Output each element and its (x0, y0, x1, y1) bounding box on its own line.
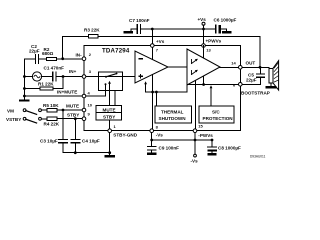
wire: +Vs top rail (131, 28, 227, 30)
node: OUT junction (259, 66, 262, 69)
svg-text:IN-: IN- (76, 52, 83, 57)
pin 8 circle (150, 129, 154, 133)
svg-text:THERMAL: THERMAL (161, 110, 184, 115)
svg-text:C6 1000µF: C6 1000µF (214, 18, 237, 23)
node: C3 tap (62, 109, 65, 112)
pin 1 circle (108, 129, 112, 133)
ground (C7 left) (125, 31, 132, 33)
svg-text:8: 8 (156, 125, 159, 130)
wire: stby link to STBY box (114, 90, 116, 112)
source VIN circle (32, 72, 41, 81)
switch box (mute/stby input switches) (99, 72, 123, 91)
svg-text:14: 14 (231, 60, 236, 65)
resistor R1 22K (40, 87, 53, 90)
svg-text:22µF: 22µF (29, 49, 40, 54)
wire: VM to R5 (41, 109, 47, 111)
node: C4 tap (74, 117, 77, 120)
pin 10 circle (82, 108, 86, 112)
svg-text:STBY: STBY (67, 112, 79, 117)
node: C4 bottom (74, 151, 77, 154)
svg-text:C7 100nF: C7 100nF (129, 18, 150, 23)
svg-text:-PWVs: -PWVs (198, 133, 213, 138)
svg-text:MUTE: MUTE (66, 104, 79, 109)
svg-text:SHUTDOWN: SHUTDOWN (159, 116, 187, 121)
svg-text:-Vs: -Vs (191, 158, 199, 163)
MUTE block (96, 106, 122, 113)
svg-text:6: 6 (233, 83, 236, 88)
pin 13 circle (202, 44, 206, 48)
svg-text:IN+: IN+ (69, 69, 77, 74)
S/C arrow (210, 88, 212, 106)
switch contact dots (105, 76, 107, 78)
wire: thermal box link (155, 92, 157, 106)
wire: R1 row (24, 77, 63, 89)
node: pin1 ground junction (108, 151, 111, 154)
pin 15 circle (193, 129, 197, 133)
node: bus/IN+MUTE junction (23, 95, 26, 98)
ground (input bus) (20, 99, 28, 101)
svg-text:D93AU011: D93AU011 (250, 155, 266, 159)
svg-text:3: 3 (89, 69, 92, 74)
svg-text:22µF: 22µF (246, 78, 257, 83)
wire through switch box to op-amp + (86, 76, 135, 78)
node: bootstrap internal tap (202, 83, 205, 86)
transistor symbol upper (192, 60, 198, 64)
capacitor C7 100nF (137, 25, 140, 34)
svg-text:-Vs: -Vs (156, 132, 164, 137)
wire: bootstrap internal (187, 84, 239, 86)
svg-text:9: 9 (88, 112, 91, 117)
svg-text:R4 22K: R4 22K (44, 122, 60, 127)
node: bus/R1 junction (23, 87, 26, 90)
wire: +Vs terminal riser to pin 13 (203, 25, 205, 45)
svg-text:+Vs: +Vs (198, 17, 207, 22)
pin 6 circle (239, 83, 243, 87)
capacitor C3 10uF (62, 110, 64, 153)
wire: -Vs bus (152, 132, 212, 140)
wire: output row (220, 66, 240, 68)
power stage triangle (187, 49, 220, 85)
wire: pin13 into power amp (203, 46, 205, 59)
thermal shutdown block (155, 106, 191, 123)
svg-text:STBY: STBY (103, 115, 115, 120)
svg-text:+PWVs: +PWVs (206, 39, 222, 44)
op-amp U1a triangle (135, 51, 168, 83)
wire: pin1 drop (109, 131, 111, 155)
svg-text:OUT: OUT (246, 61, 256, 66)
S/C protection block (199, 106, 234, 123)
svg-text:7: 7 (156, 47, 159, 52)
svg-text:R3 22K: R3 22K (84, 28, 100, 33)
terminal -Vs (194, 154, 197, 157)
wire: VSTBY to R4 (41, 118, 47, 120)
svg-text:VSTBY: VSTBY (6, 117, 21, 122)
ground (C8) (209, 153, 216, 155)
wire: MUTE row to pin 10 (57, 109, 84, 111)
svg-text:PROTECTION: PROTECTION (203, 116, 234, 121)
svg-text:C5: C5 (248, 72, 254, 77)
wire: IN- row (pin2) (24, 58, 84, 60)
STBY block (96, 113, 122, 121)
svg-text:R5 10K: R5 10K (43, 103, 59, 108)
svg-text:IN+MUTE: IN+MUTE (57, 90, 77, 95)
capacitor C9 100nF (151, 140, 153, 153)
wire: interstage (168, 66, 187, 68)
wire: C6 ground stem (226, 29, 228, 31)
svg-text:STBY-GND: STBY-GND (113, 133, 137, 138)
wire: pin15 internal (194, 81, 196, 131)
capacitor C6 1000uF (215, 25, 217, 33)
wire: pin15 to -Vs terminal (194, 132, 196, 154)
speaker RL (269, 68, 273, 83)
node: bus/source junction (23, 75, 26, 78)
node: +Vs rail junction (202, 28, 205, 31)
switch SW-VSTBY (23, 117, 26, 120)
node: C8 tap (211, 139, 214, 142)
svg-text:1: 1 (114, 124, 117, 129)
capacitor C8 1000uF (211, 140, 213, 153)
resistor R2 680 (46, 57, 56, 60)
thermal arrow into amp (145, 84, 147, 92)
wire: STBY row to pin 9 (57, 118, 84, 120)
wire: OUT row to speaker (242, 66, 269, 68)
capacitor C5 22uF (259, 67, 261, 84)
pin 2 circle (82, 57, 86, 61)
svg-text:680Ω: 680Ω (42, 51, 54, 56)
svg-text:S/C: S/C (212, 110, 220, 115)
wire: small-signal ground bus (63, 152, 110, 154)
wire: speaker to ground (270, 83, 272, 86)
pin 3 circle (82, 75, 86, 79)
svg-text:+Vs: +Vs (156, 39, 165, 44)
wire: C7 ground stem (130, 29, 132, 31)
wire: pin7 into amp (151, 46, 153, 60)
resistor R3 22K (89, 35, 99, 38)
svg-text:10: 10 (88, 102, 93, 107)
svg-text:TDA7294: TDA7294 (102, 47, 130, 54)
svg-text:15: 15 (198, 124, 203, 129)
wire: source row to IN+ (24, 76, 84, 78)
capacitor C4 10uF (74, 119, 76, 153)
resistor R5 10K (47, 109, 57, 112)
svg-text:C8 1000µF: C8 1000µF (218, 145, 241, 150)
svg-text:4: 4 (88, 90, 91, 95)
wire: pin7 riser (151, 29, 153, 46)
pin 4 circle (82, 94, 86, 98)
wire: IN+MUTE row (pin4) (24, 84, 105, 96)
svg-text:2: 2 (89, 52, 92, 57)
svg-text:MUTE: MUTE (103, 107, 116, 112)
switch SW-VM (23, 109, 26, 112)
svg-text:13: 13 (206, 48, 211, 53)
terminal +Vs (202, 22, 205, 25)
transistor symbol lower (192, 71, 198, 75)
svg-text:R1 22K: R1 22K (38, 81, 54, 86)
pin 7 circle (151, 44, 155, 48)
svg-text:C9 100nF: C9 100nF (159, 146, 180, 151)
capacitor C2 22uF (35, 55, 38, 64)
IC U1 TDA7294 outline (84, 46, 240, 131)
wire: left ground bus (23, 59, 25, 99)
ground (speaker) (267, 86, 275, 88)
mute actuator arrow (109, 83, 111, 106)
capacitor C1 470nF (53, 72, 56, 81)
ground (C6 right) (223, 31, 230, 33)
wire: STBY block to pin1 (109, 120, 111, 131)
node: pin7 rail junction (151, 28, 154, 31)
wire: bootstrap row (242, 83, 260, 85)
internal rail to -Vs (146, 85, 187, 92)
switch blade (106, 74, 117, 77)
node: C1/R1/pin3 junction (62, 75, 65, 78)
svg-text:BOOTSTRAP: BOOTSTRAP (241, 90, 270, 95)
ground (STBY-GND) (106, 155, 114, 157)
svg-text:C1 470nF: C1 470nF (44, 65, 65, 70)
svg-text:VM: VM (7, 108, 14, 113)
ground (C9) (148, 153, 155, 155)
wire: pin8 internal (152, 75, 154, 131)
svg-text:C4 10µF: C4 10µF (82, 138, 100, 143)
wire: feedback loop R3 (63, 36, 260, 67)
svg-text:C3 10µF: C3 10µF (40, 138, 58, 143)
resistor R4 22K (47, 117, 57, 120)
pin 14 circle (239, 66, 243, 70)
node: R3 tap on IN- row (61, 57, 64, 60)
pin 9 circle (82, 117, 86, 121)
